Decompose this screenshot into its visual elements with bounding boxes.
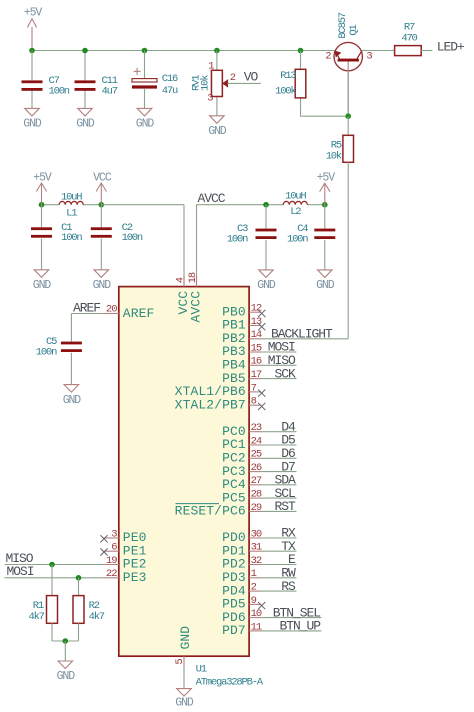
svg-text:27: 27 xyxy=(251,475,262,487)
svg-text:C16: C16 xyxy=(162,73,178,85)
svg-text:SCK: SCK xyxy=(275,366,297,381)
svg-text:1: 1 xyxy=(208,60,214,72)
svg-text:2: 2 xyxy=(325,51,331,63)
svg-text:25: 25 xyxy=(251,449,262,461)
svg-text:GND: GND xyxy=(93,279,112,292)
svg-text:4k7: 4k7 xyxy=(28,611,44,623)
svg-text:18: 18 xyxy=(187,272,199,283)
svg-text:5: 5 xyxy=(174,659,186,665)
svg-text:6: 6 xyxy=(111,542,117,554)
svg-text:R13: R13 xyxy=(280,70,296,82)
svg-text:10: 10 xyxy=(251,608,262,620)
svg-text:GND: GND xyxy=(208,125,227,138)
svg-text:VO: VO xyxy=(244,69,259,84)
svg-text:GND: GND xyxy=(63,394,82,407)
svg-text:GND: GND xyxy=(33,279,52,292)
svg-text:3: 3 xyxy=(207,93,213,105)
svg-text:12: 12 xyxy=(251,303,262,315)
svg-text:ATmega328PB-A: ATmega328PB-A xyxy=(196,676,264,688)
svg-text:GND: GND xyxy=(257,279,276,292)
svg-text:8: 8 xyxy=(251,396,257,408)
svg-text:24: 24 xyxy=(251,435,262,447)
svg-text:14: 14 xyxy=(251,329,262,341)
svg-text:+5V: +5V xyxy=(24,7,43,20)
svg-text:32: 32 xyxy=(251,555,262,567)
svg-text:22: 22 xyxy=(106,568,117,580)
svg-text:100n: 100n xyxy=(287,234,308,246)
svg-text:2: 2 xyxy=(230,72,236,84)
svg-text:+5V: +5V xyxy=(33,172,52,185)
svg-text:3: 3 xyxy=(366,51,372,63)
svg-text:15: 15 xyxy=(251,342,262,354)
svg-text:28: 28 xyxy=(251,489,262,501)
svg-text:4u7: 4u7 xyxy=(102,85,118,97)
svg-text:RS: RS xyxy=(281,579,296,594)
svg-text:VCC: VCC xyxy=(93,172,112,185)
svg-text:11: 11 xyxy=(251,621,262,633)
svg-text:RST: RST xyxy=(275,499,297,514)
svg-text:AREF: AREF xyxy=(73,300,100,315)
svg-text:2: 2 xyxy=(251,582,257,594)
svg-text:MOSI: MOSI xyxy=(7,564,34,579)
svg-text:30: 30 xyxy=(251,528,262,540)
svg-text:AVCC: AVCC xyxy=(188,291,203,323)
svg-text:9: 9 xyxy=(251,595,257,607)
svg-text:23: 23 xyxy=(251,422,262,434)
svg-text:Q1: Q1 xyxy=(348,24,360,35)
svg-text:GND: GND xyxy=(57,670,76,683)
svg-text:26: 26 xyxy=(251,462,262,474)
svg-text:GND: GND xyxy=(178,626,193,650)
svg-text:29: 29 xyxy=(251,502,262,514)
svg-text:GND: GND xyxy=(23,118,42,131)
svg-text:GND: GND xyxy=(316,279,335,292)
svg-text:100n: 100n xyxy=(122,232,143,244)
svg-text:4k7: 4k7 xyxy=(89,611,105,623)
svg-text:16: 16 xyxy=(251,356,262,368)
svg-text:BTN_UP: BTN_UP xyxy=(279,619,321,634)
svg-text:100n: 100n xyxy=(36,347,57,359)
svg-text:10k: 10k xyxy=(326,151,342,163)
svg-text:13: 13 xyxy=(251,316,262,328)
svg-text:L1: L1 xyxy=(66,207,77,219)
svg-text:GND: GND xyxy=(175,697,194,710)
svg-text:100n: 100n xyxy=(61,232,82,244)
svg-text:10k: 10k xyxy=(200,75,212,91)
svg-text:7: 7 xyxy=(251,382,257,394)
svg-text:+5V: +5V xyxy=(317,172,336,185)
svg-text:L2: L2 xyxy=(290,206,301,218)
svg-text:PE3: PE3 xyxy=(123,570,147,585)
svg-text:17: 17 xyxy=(251,369,262,381)
svg-text:GND: GND xyxy=(76,118,95,131)
svg-text:47u: 47u xyxy=(162,85,178,97)
svg-text:100n: 100n xyxy=(49,85,70,97)
svg-text:GND: GND xyxy=(136,118,155,131)
svg-text:10uH: 10uH xyxy=(285,191,306,203)
svg-text:470: 470 xyxy=(401,32,417,44)
svg-text:XTAL2/PB7: XTAL2/PB7 xyxy=(175,397,246,412)
svg-text:10uH: 10uH xyxy=(61,191,82,203)
svg-text:AREF: AREF xyxy=(123,306,155,321)
svg-text:RESET/PC6: RESET/PC6 xyxy=(175,504,246,519)
svg-text:100k: 100k xyxy=(275,85,296,97)
svg-text:U1: U1 xyxy=(196,664,207,676)
svg-text:AVCC: AVCC xyxy=(198,191,226,206)
svg-text:1: 1 xyxy=(251,568,257,580)
svg-text:31: 31 xyxy=(251,542,262,554)
svg-text:19: 19 xyxy=(106,555,117,567)
svg-text:100n: 100n xyxy=(227,234,248,246)
svg-text:LED+: LED+ xyxy=(437,39,465,54)
svg-text:PD7: PD7 xyxy=(222,623,246,638)
svg-text:3: 3 xyxy=(111,528,117,540)
svg-text:4: 4 xyxy=(175,277,187,283)
